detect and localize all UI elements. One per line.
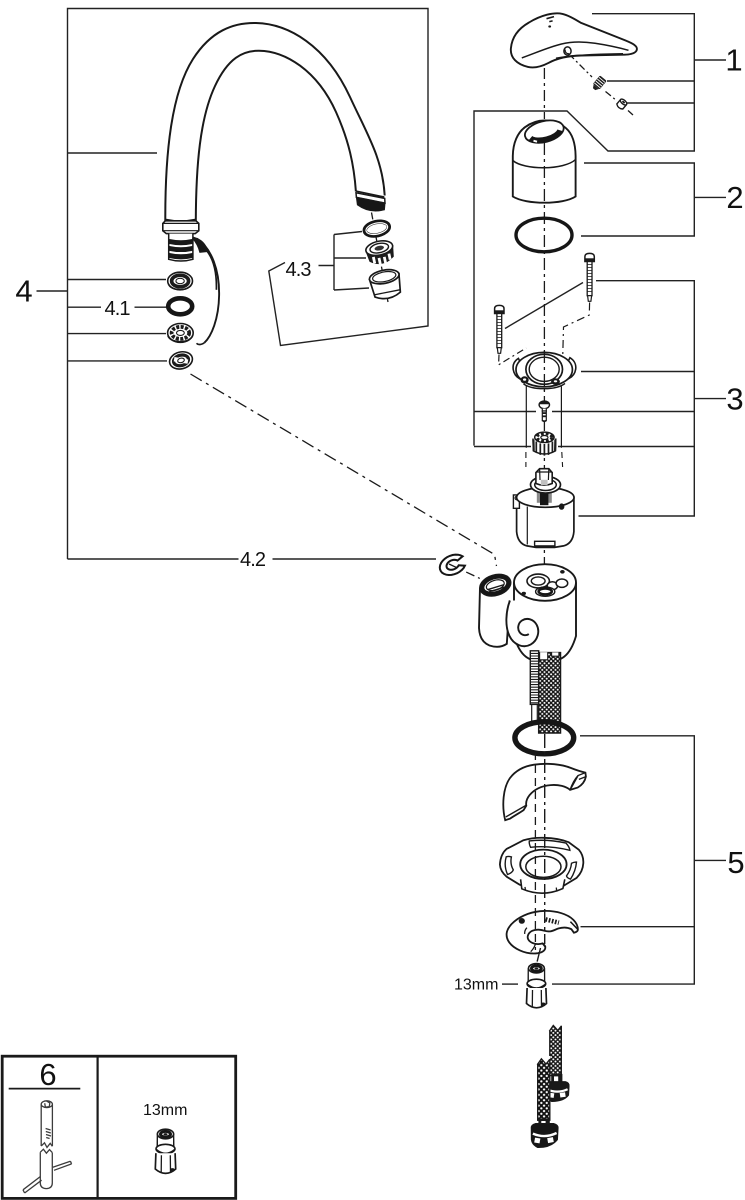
body O-ring seal [515, 722, 574, 754]
tick 2 [694, 196, 726, 198]
13mm nut [527, 964, 547, 1008]
ring C [168, 349, 195, 371]
leader between screws [505, 283, 583, 329]
O-ring 4.1 [168, 298, 192, 314]
svg-text:5: 5 [727, 845, 744, 880]
service tool [23, 1101, 72, 1193]
short braided hose (right) [546, 1023, 569, 1102]
handle screw [591, 75, 607, 92]
spout left base flange [163, 219, 199, 233]
ring A [168, 272, 193, 290]
leader small screw row [474, 411, 694, 413]
escutcheon flange ring [513, 352, 576, 388]
centerline handle to dome [543, 68, 545, 119]
dome cap [513, 117, 576, 203]
right fixing screw [585, 253, 594, 301]
handle screw cap [616, 98, 628, 110]
leader to ring C [68, 360, 168, 362]
aerator O-ring 4.3 [363, 220, 390, 238]
left fixing screw [495, 305, 504, 353]
box frame [2, 1056, 236, 1198]
dash over flange center [543, 351, 545, 391]
cartridge [513, 469, 574, 548]
leader 13mm nut [502, 983, 518, 985]
svg-text:4.1: 4.1 [105, 298, 131, 320]
leader 4.1 [68, 306, 167, 308]
flange hole projection lines [526, 386, 561, 448]
aerator shell [368, 267, 403, 301]
spout body ghost swoosh [193, 237, 220, 344]
O-ring item 2 [516, 218, 572, 252]
long diagonal dash-dot spout to body [191, 374, 497, 566]
svg-text:3: 3 [726, 381, 743, 416]
spout tube arc [165, 23, 384, 222]
leader to spout tube [68, 152, 158, 154]
knurled nut [533, 432, 556, 456]
leader knurled nut row [474, 446, 694, 448]
spout right end collar [356, 191, 385, 211]
svg-text:1: 1 [725, 43, 742, 78]
leader 4 label [37, 290, 68, 292]
horseshoe washer [507, 911, 578, 954]
tick 1 [694, 59, 726, 61]
13mm socket (box) [155, 1129, 175, 1173]
svg-text:13mm: 13mm [143, 1102, 187, 1119]
left screw dash-dot [499, 348, 527, 365]
label 6 underline [9, 1088, 81, 1090]
aerator centerline [372, 213, 389, 303]
braided shank [539, 652, 561, 733]
handle lever [511, 13, 637, 67]
C-clip 4.2 [440, 555, 465, 575]
body main cylinder [514, 564, 576, 662]
leader flange [581, 371, 694, 373]
bottom centerlines [535, 734, 544, 963]
item 3 bracket right [579, 281, 695, 516]
svg-text:6: 6 [39, 1057, 56, 1092]
item 4 bracket outline [68, 9, 429, 560]
leader 4.2 bottom [68, 558, 437, 560]
item 5 bracket [552, 736, 694, 984]
svg-text:2: 2 [726, 180, 743, 215]
svg-text:4.2: 4.2 [240, 549, 266, 571]
body front hook [506, 601, 538, 647]
svg-text:13mm: 13mm [454, 977, 498, 994]
leader handle screw [607, 80, 694, 82]
svg-text:4: 4 [15, 274, 32, 309]
mounting nut [500, 838, 583, 893]
body spout socket [477, 571, 513, 647]
tick 3 [694, 398, 726, 400]
svg-text:4.3: 4.3 [286, 259, 312, 281]
cartridge fixing screw (small) [539, 401, 549, 422]
dash-dot clip to socket [449, 564, 480, 579]
leader to ring B [68, 333, 167, 335]
threaded stud [530, 651, 538, 723]
tick 5 [694, 859, 726, 861]
aerator insert [365, 239, 396, 267]
ring B [168, 324, 194, 343]
right screw dash-dot [563, 303, 590, 355]
leader horseshoe [581, 926, 695, 928]
centerline through dome/flange [543, 143, 545, 566]
curved wedge washer [503, 764, 586, 820]
leader to ring A [68, 279, 167, 281]
spout base groove block [169, 234, 193, 261]
4.3 label bracket [319, 232, 370, 291]
handle screw axis [569, 54, 633, 115]
item 1 bracket [474, 14, 694, 446]
item 2 bracket [581, 163, 694, 236]
long braided hose (left) [531, 1056, 558, 1148]
leader handle cap [626, 102, 694, 104]
